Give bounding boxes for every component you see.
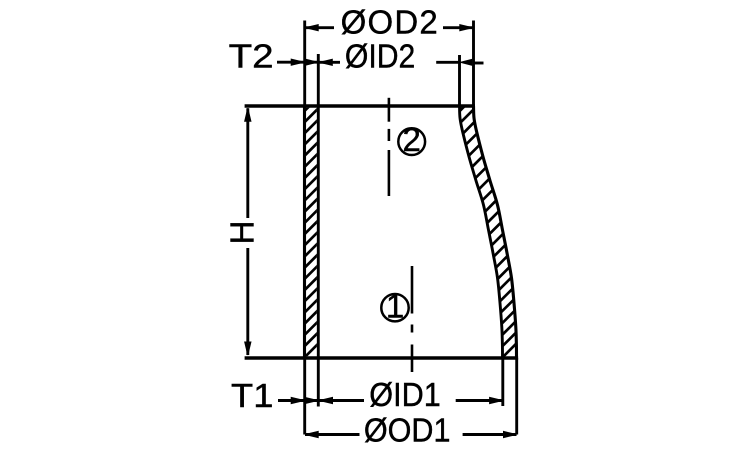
svg-text:2: 2 bbox=[403, 121, 421, 158]
extension line OD1 right (x=516.7 below body) bbox=[515, 358, 518, 435]
dimension ID2 line right segment bbox=[436, 61, 460, 64]
bottom end face (large end OD1) bbox=[245, 356, 518, 360]
dimension ID1 line left segment bbox=[320, 399, 365, 402]
dimension OD2 line left segment bbox=[305, 26, 334, 29]
svg-text:ØID1: ØID1 bbox=[369, 376, 440, 413]
svg-text:ØID2: ØID2 bbox=[345, 37, 415, 75]
dimension OD1 line left segment bbox=[305, 433, 360, 436]
port number 2 (circled) bbox=[398, 128, 425, 155]
extension line ID1 right (x=502.8 below body) bbox=[501, 358, 504, 406]
extension line OD2 right (x=473.5 above body) bbox=[472, 21, 475, 107]
centerline small end (port 2) bbox=[388, 98, 391, 196]
extension line OD2 left (x=304.7 above body) bbox=[303, 21, 306, 107]
left wall inner surface (bore) bbox=[317, 106, 320, 358]
svg-text:ØOD1: ØOD1 bbox=[364, 411, 451, 448]
extension line ID1 left (x=318.3 below body) bbox=[317, 358, 320, 407]
right wall inner surface (bore, eccentric curve) bbox=[460, 106, 503, 358]
section hatching, left wall bbox=[305, 97, 319, 357]
dimension H line bbox=[246, 108, 249, 218]
dimension ID2 line left segment bbox=[319, 61, 340, 64]
extension line ID2 right (x=459.5 above body) bbox=[458, 55, 461, 106]
svg-text:ØOD2: ØOD2 bbox=[341, 3, 439, 40]
right wall outer surface (eccentric curve) bbox=[474, 106, 517, 358]
dimension ID1 line right segment bbox=[456, 399, 503, 402]
dimension OD1 line right segment bbox=[463, 433, 517, 436]
svg-text:T1: T1 bbox=[231, 378, 273, 414]
svg-text:T2: T2 bbox=[229, 37, 274, 75]
dimension T2 leader line bbox=[277, 61, 318, 64]
top end face (small end OD2) bbox=[245, 104, 475, 108]
section hatching, right wall bbox=[460, 97, 517, 357]
left wall outer surface bbox=[303, 105, 306, 360]
extension line ID2 left (x=318.3 above body) bbox=[317, 54, 320, 106]
extension line OD1 left (x=304.7 below body) bbox=[303, 358, 306, 435]
dimension T1 leader line bbox=[278, 399, 318, 402]
dimension OD2 line right segment bbox=[443, 26, 473, 29]
centerline large end (port 1) bbox=[411, 266, 414, 372]
svg-text:1: 1 bbox=[386, 287, 404, 324]
svg-text:H: H bbox=[224, 221, 261, 245]
port number 1 (circled) bbox=[381, 294, 408, 321]
